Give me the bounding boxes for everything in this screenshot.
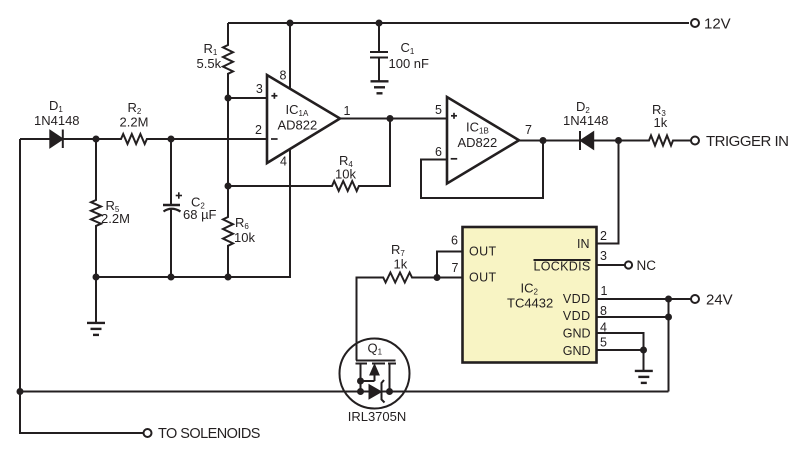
- svg-text:10k: 10k: [335, 167, 356, 182]
- diode D2: [580, 131, 593, 150]
- svg-text:1: 1: [601, 284, 608, 298]
- svg-text:5: 5: [600, 336, 607, 350]
- op-amp IC1B: [447, 97, 519, 184]
- svg-text:AD822: AD822: [458, 135, 498, 150]
- wire GND4: [597, 333, 644, 350]
- svg-text:1N4148: 1N4148: [563, 113, 609, 128]
- svg-text:IRL3705N: IRL3705N: [348, 409, 407, 424]
- junction left vertical/bottom rail: [17, 388, 24, 395]
- wire R7 corner to Q1 gate: [357, 278, 384, 361]
- junction VDD1/24V: [665, 296, 672, 303]
- svg-text:12V: 12V: [704, 16, 731, 33]
- svg-text:TC4432: TC4432: [507, 296, 553, 311]
- junction VDD8: [665, 314, 672, 321]
- resistor R6: [223, 186, 233, 277]
- junction bus/R6: [225, 274, 232, 281]
- wire OUT6 bracket: [437, 252, 462, 278]
- wire pin8 drop from rail: [289, 23, 291, 90]
- op-amp IC1A: [267, 75, 340, 163]
- wire main input line left segment: [20, 138, 51, 140]
- svg-text:6: 6: [435, 145, 442, 159]
- svg-text:Q1: Q1: [368, 341, 383, 357]
- wire pin3 branch: [228, 97, 267, 99]
- junction output/R4: [387, 115, 394, 122]
- junction D1/R5: [93, 136, 100, 143]
- svg-text:GND: GND: [563, 327, 591, 341]
- wire R2 output to pin 2: [171, 138, 267, 140]
- wire VDD8: [597, 316, 669, 318]
- svg-text:4: 4: [600, 321, 607, 335]
- wire IC1A output to IC1B pin5: [340, 118, 447, 120]
- svg-text:OUT: OUT: [469, 271, 497, 285]
- wire IC1B output to D2: [519, 140, 580, 142]
- svg-text:IN: IN: [577, 237, 590, 251]
- svg-text:1N4148: 1N4148: [34, 113, 80, 128]
- svg-text:OUT: OUT: [469, 245, 497, 259]
- wire D2 to junction: [593, 140, 619, 142]
- wire bottom long rail: [20, 391, 669, 393]
- junction Q1 drain/rail: [386, 388, 393, 395]
- svg-text:2.2M: 2.2M: [120, 115, 149, 130]
- svg-text:D1: D1: [49, 98, 63, 114]
- terminal NC: [625, 261, 632, 268]
- wire IC1B feedback pin6: [421, 141, 543, 199]
- svg-text:6: 6: [451, 234, 458, 248]
- svg-text:R6: R6: [235, 215, 249, 231]
- resistor R1: [223, 23, 233, 98]
- wire trigger junction down to IN pin: [597, 141, 619, 244]
- svg-text:7: 7: [452, 261, 459, 275]
- transistor Q1 MOSFET: [340, 339, 410, 409]
- svg-text:1k: 1k: [394, 257, 408, 272]
- svg-text:2: 2: [255, 123, 262, 137]
- junction OUT bracket: [434, 274, 441, 281]
- svg-text:5.5k: 5.5k: [197, 56, 222, 71]
- junction rail/pin8: [287, 20, 294, 27]
- svg-text:VDD: VDD: [563, 309, 591, 323]
- svg-text:TO SOLENOIDS: TO SOLENOIDS: [158, 426, 260, 442]
- svg-text:100 nF: 100 nF: [389, 56, 430, 71]
- junction bus/C2: [168, 274, 175, 281]
- svg-text:24V: 24V: [706, 292, 733, 309]
- junction D2/R3: [615, 137, 622, 144]
- wire left vertical to solenoids: [20, 139, 144, 433]
- junction pin7/feedback: [540, 137, 547, 144]
- wire VDD1 to 24V: [597, 298, 691, 300]
- svg-text:C1: C1: [401, 40, 415, 56]
- svg-text:5: 5: [435, 103, 442, 117]
- terminal TO SOLENOIDS: [144, 429, 152, 437]
- svg-text:R1: R1: [204, 41, 218, 57]
- diode D1: [50, 130, 96, 149]
- junction rail/C1: [376, 20, 383, 27]
- ground symbol under R5: [87, 277, 105, 335]
- svg-text:GND: GND: [563, 344, 591, 358]
- svg-text:2: 2: [600, 229, 607, 243]
- IC U2 TC4432 body: [463, 227, 597, 363]
- wire 12V top rail: [228, 22, 689, 24]
- resistor R3: [619, 136, 691, 146]
- terminal 12V: [691, 19, 699, 27]
- junction Q1 source/rail: [357, 388, 364, 395]
- ground symbol IC2 GND: [635, 371, 653, 383]
- LOCKDIS overline: [534, 259, 591, 261]
- wire 24V vertical: [668, 299, 670, 392]
- junction GND4/GND5: [640, 347, 647, 354]
- svg-text:VDD: VDD: [563, 292, 591, 306]
- capacitor C2 polarized: [163, 139, 181, 277]
- junction R1/R4: [225, 183, 232, 190]
- junction R1/pin3: [225, 95, 232, 102]
- resistor R5: [91, 139, 101, 277]
- terminal 24V: [691, 295, 699, 303]
- wire GND5 to ground: [597, 350, 644, 371]
- wire OUT7 lead: [437, 277, 462, 279]
- svg-text:TRIGGER IN: TRIGGER IN: [706, 133, 789, 150]
- junction bus/R5: [93, 274, 100, 281]
- svg-text:4: 4: [280, 155, 287, 169]
- svg-text:8: 8: [600, 304, 607, 318]
- svg-text:68 µF: 68 µF: [183, 207, 217, 222]
- junction R2/C2: [168, 136, 175, 143]
- svg-text:8: 8: [280, 69, 287, 83]
- svg-text:3: 3: [256, 82, 263, 96]
- svg-text:AD822: AD822: [278, 118, 318, 133]
- terminal TRIGGER IN: [691, 137, 699, 145]
- svg-text:1k: 1k: [654, 115, 668, 130]
- junction Q1 source/body: [357, 378, 364, 385]
- label C2 plus: [176, 192, 182, 198]
- svg-text:7: 7: [525, 123, 532, 137]
- svg-text:NC: NC: [637, 258, 657, 273]
- svg-text:1: 1: [344, 104, 351, 118]
- capacitor C1: [370, 23, 388, 81]
- resistor R7: [383, 273, 437, 283]
- svg-text:LOCKDIS: LOCKDIS: [534, 260, 591, 274]
- resistor R4: [228, 119, 390, 192]
- svg-text:3: 3: [600, 249, 607, 263]
- wire LOCKDIS to NC: [597, 264, 625, 266]
- ground symbol under C1: [371, 81, 389, 93]
- svg-text:10k: 10k: [234, 230, 255, 245]
- svg-text:2.2M: 2.2M: [101, 211, 130, 226]
- resistor R2: [96, 134, 171, 144]
- wire R1 to R4 column segment: [227, 98, 229, 186]
- wire ground bus bottom left: [96, 149, 290, 277]
